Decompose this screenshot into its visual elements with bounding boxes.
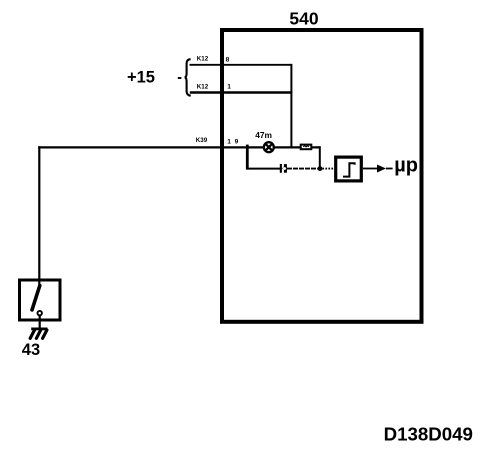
svg-text:47m: 47m (255, 130, 272, 140)
svg-text:+15: +15 (127, 69, 155, 87)
wire K12 (upper +15 feed) (190, 64, 292, 66)
lamp 47m (264, 142, 274, 152)
svg-text:D138D049: D138D049 (384, 424, 473, 445)
svg-text:540: 540 (289, 8, 318, 28)
wire: vertical feed from +15 rows down to lamp row (290, 64, 292, 148)
svg-text:8: 8 (226, 56, 230, 63)
wire: diode branch left segment (247, 168, 280, 170)
junction: branch split left vertical (246, 145, 249, 170)
svg-text:K12: K12 (197, 83, 209, 90)
wire: resistor output down to node (319, 146, 321, 168)
svg-text:µp: µp (394, 155, 418, 177)
brace grouping +15 feeds (185, 59, 191, 95)
svg-text:1: 1 (227, 84, 231, 91)
wire K12 (lower +15 feed) (190, 91, 293, 93)
arrow to microprocessor (363, 165, 393, 173)
svg-text:K39: K39 (196, 137, 208, 144)
ground (30, 329, 47, 338)
svg-text:9: 9 (235, 139, 239, 146)
node: junction dot (318, 166, 323, 171)
wire: node to threshold block (322, 168, 334, 170)
svg-text:1: 1 (227, 139, 231, 146)
svg-text:43: 43 (22, 341, 40, 359)
resistor (301, 145, 312, 150)
diode (cathode bar left) (280, 164, 287, 173)
wire K39 (main feed from switch) (38, 146, 320, 148)
tie dash for +15 (178, 77, 182, 79)
step function symbol (343, 163, 355, 176)
wire: switch to ground (39, 315, 41, 329)
threshold block (336, 157, 362, 181)
switch 43 box (20, 280, 61, 320)
wire: diode branch middle segment (287, 168, 318, 170)
control unit box 540 (222, 30, 422, 322)
svg-text:K12: K12 (197, 56, 209, 63)
switch lever (32, 286, 40, 310)
switch contact (38, 311, 42, 315)
wire: switch feed vertical (38, 146, 40, 285)
